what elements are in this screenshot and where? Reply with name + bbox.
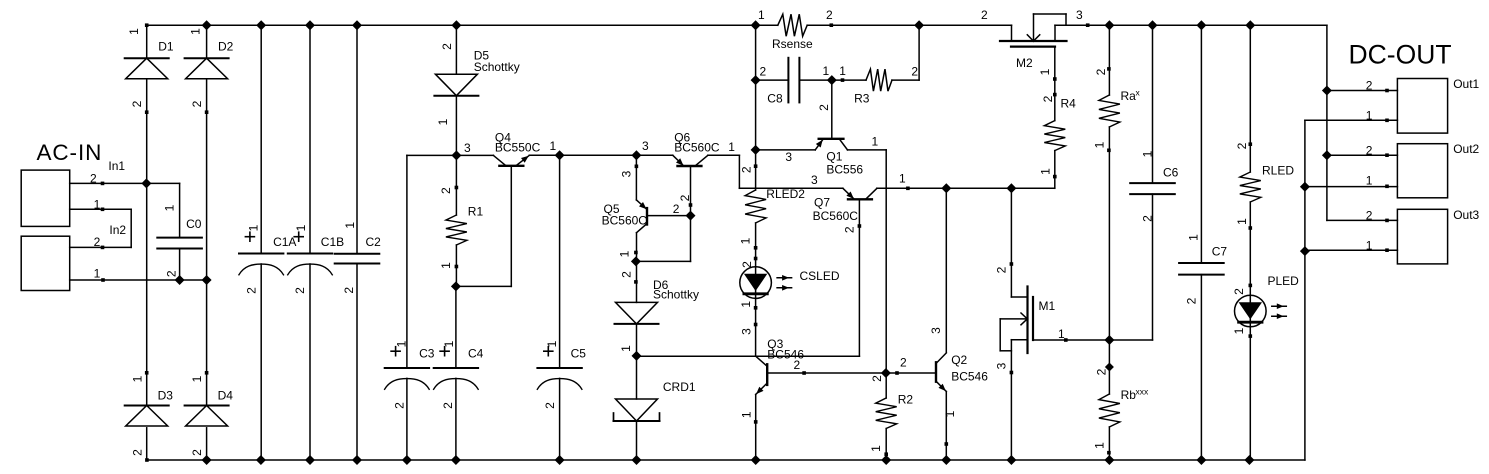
svg-text:2: 2 [870,375,884,382]
svg-text:2: 2 [441,402,455,409]
svg-text:RLED: RLED [1262,164,1294,178]
svg-text:1: 1 [839,64,846,78]
svg-text:2: 2 [1232,288,1246,295]
svg-text:2: 2 [817,104,831,111]
svg-text:R3: R3 [854,92,870,106]
svg-text:CRD1: CRD1 [663,380,696,394]
svg-text:C7: C7 [1212,245,1228,259]
svg-text:Out1: Out1 [1453,77,1479,91]
svg-text:2: 2 [1095,368,1109,375]
svg-text:BC556: BC556 [826,163,863,177]
svg-text:2: 2 [900,356,907,370]
svg-text:1: 1 [247,224,261,231]
svg-text:2: 2 [1235,142,1249,149]
svg-text:Rsense: Rsense [772,37,813,51]
svg-text:2: 2 [1094,68,1108,75]
svg-text:1: 1 [728,140,735,154]
svg-text:2: 2 [678,194,692,201]
svg-text:C6: C6 [1163,166,1179,180]
svg-text:C1A: C1A [273,235,296,249]
svg-text:2: 2 [1141,215,1155,222]
svg-text:2: 2 [673,202,680,216]
svg-text:1: 1 [869,445,883,452]
svg-text:2: 2 [1185,297,1199,304]
svg-text:1: 1 [619,345,633,352]
svg-text:2: 2 [1366,79,1373,93]
svg-text:C3: C3 [419,347,435,361]
svg-text:Ra: Ra [1121,89,1137,103]
svg-text:2: 2 [843,226,857,233]
svg-text:1: 1 [823,64,830,78]
svg-text:BC546: BC546 [951,370,988,384]
svg-text:M1: M1 [1039,299,1056,313]
svg-text:3: 3 [1076,8,1083,22]
svg-text:D4: D4 [218,388,234,402]
svg-text:1: 1 [127,28,141,35]
svg-text:C5: C5 [571,347,587,361]
svg-text:1: 1 [618,250,632,257]
svg-text:1: 1 [739,237,753,244]
svg-text:R2: R2 [898,393,914,407]
svg-text:2: 2 [440,43,454,50]
svg-text:2: 2 [439,187,453,194]
svg-text:3: 3 [740,328,754,335]
svg-text:1: 1 [343,222,357,229]
svg-text:2: 2 [826,8,833,22]
svg-text:1: 1 [1366,174,1373,188]
svg-text:CSLED: CSLED [800,269,840,283]
svg-text:xxx: xxx [1136,387,1150,397]
svg-text:DC-OUT: DC-OUT [1349,40,1452,70]
svg-text:1: 1 [1366,109,1373,123]
svg-text:1: 1 [545,340,559,347]
svg-text:1: 1 [94,198,101,212]
svg-text:2: 2 [995,266,1009,273]
svg-text:2: 2 [245,287,259,294]
svg-text:2: 2 [1366,209,1373,223]
svg-text:2: 2 [760,65,767,79]
svg-text:3: 3 [620,170,634,177]
svg-text:RLED2: RLED2 [766,187,805,201]
svg-text:C8: C8 [767,92,783,106]
svg-text:1: 1 [94,267,101,281]
svg-text:1: 1 [439,262,453,269]
svg-text:3: 3 [642,139,649,153]
svg-text:BC560C: BC560C [813,209,859,223]
svg-text:1: 1 [758,8,765,22]
svg-text:1: 1 [550,139,557,153]
svg-text:In2: In2 [109,223,126,237]
svg-text:1: 1 [130,375,144,382]
svg-text:R4: R4 [1061,97,1077,111]
svg-text:2: 2 [1366,144,1373,158]
svg-text:1: 1 [294,224,308,231]
svg-text:Rb: Rb [1121,388,1137,402]
svg-text:1: 1 [1187,234,1201,241]
svg-text:BC550C: BC550C [495,140,541,154]
svg-text:Schottky: Schottky [474,60,520,74]
svg-text:1: 1 [1039,168,1053,175]
svg-text:1: 1 [162,204,176,211]
svg-text:2: 2 [619,271,633,278]
svg-text:3: 3 [929,327,943,334]
svg-text:1: 1 [1093,442,1107,449]
svg-text:C0: C0 [186,217,202,231]
svg-text:1: 1 [872,135,879,149]
svg-text:BC560C: BC560C [674,140,720,154]
svg-text:Q1: Q1 [826,150,842,164]
svg-text:2: 2 [130,449,144,456]
svg-text:1: 1 [740,411,754,418]
svg-text:D3: D3 [158,388,174,402]
svg-text:3: 3 [811,173,818,187]
svg-text:PLED: PLED [1268,274,1300,288]
svg-text:Schottky: Schottky [653,288,699,302]
svg-text:1: 1 [899,172,906,186]
svg-text:2: 2 [393,402,407,409]
svg-text:1: 1 [1141,150,1155,157]
svg-text:1: 1 [190,375,204,382]
svg-text:1: 1 [436,118,450,125]
svg-text:2: 2 [293,287,307,294]
svg-text:3: 3 [995,362,1009,369]
svg-text:1: 1 [442,340,456,347]
svg-text:1: 1 [1093,141,1107,148]
svg-text:2: 2 [740,166,754,173]
svg-text:1: 1 [189,28,203,35]
svg-text:2: 2 [94,235,101,249]
svg-text:1: 1 [1058,327,1065,341]
svg-text:2: 2 [130,100,144,107]
svg-text:1: 1 [1235,218,1249,225]
svg-text:2: 2 [342,287,356,294]
svg-text:Q2: Q2 [951,353,967,367]
svg-text:1: 1 [943,410,957,417]
svg-text:D2: D2 [218,40,234,54]
svg-text:3: 3 [785,150,792,164]
svg-text:2: 2 [911,65,918,79]
svg-text:2: 2 [794,358,801,372]
svg-text:BC560C: BC560C [602,214,648,228]
svg-text:R1: R1 [468,205,484,219]
svg-text:2: 2 [981,8,988,22]
svg-text:2: 2 [164,270,178,277]
svg-text:2: 2 [543,402,557,409]
svg-text:Q7: Q7 [814,196,830,210]
svg-text:2: 2 [90,172,97,186]
svg-text:D1: D1 [158,40,174,54]
svg-text:1: 1 [1366,239,1373,253]
svg-text:C1B: C1B [321,235,344,249]
svg-text:Out3: Out3 [1453,208,1479,222]
svg-text:2: 2 [740,261,754,268]
svg-text:M2: M2 [1016,56,1033,70]
svg-text:1: 1 [395,340,409,347]
svg-text:In1: In1 [108,159,125,173]
svg-text:3: 3 [464,141,471,155]
svg-text:2: 2 [190,100,204,107]
svg-text:2: 2 [1041,95,1055,102]
svg-text:C2: C2 [366,235,382,249]
svg-text:AC-IN: AC-IN [37,140,103,165]
svg-text:1: 1 [1038,68,1052,75]
svg-text:1: 1 [739,301,753,308]
svg-text:2: 2 [190,449,204,456]
svg-text:C4: C4 [468,347,484,361]
svg-text:Out2: Out2 [1453,142,1479,156]
svg-text:1: 1 [1232,327,1246,334]
